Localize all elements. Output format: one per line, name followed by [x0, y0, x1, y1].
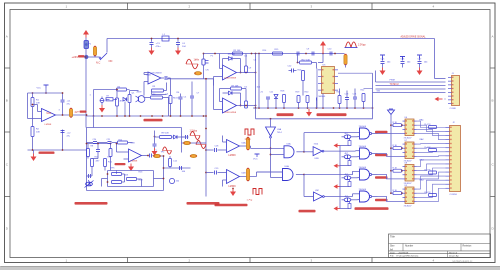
svg-text:10K: 10K: [257, 87, 261, 89]
svg-text:74LS247: 74LS247: [404, 206, 413, 208]
svg-text:74LS00: 74LS00: [359, 126, 367, 128]
svg-text:1N4148: 1N4148: [228, 54, 236, 56]
svg-text:2.5Vpp: 2.5Vpp: [358, 44, 366, 47]
svg-text:LM393: LM393: [229, 155, 237, 157]
svg-text:TO MCU: TO MCU: [390, 84, 399, 86]
svg-text:1.7Vp: 1.7Vp: [247, 200, 253, 202]
svg-text:74LS00: 74LS00: [359, 189, 367, 191]
svg-text:N.C: N.C: [96, 62, 101, 65]
svg-text:470u: 470u: [156, 46, 162, 48]
svg-text:NE555: NE555: [319, 96, 326, 98]
svg-text:tek.flash-design.cc: tek.flash-design.cc: [453, 260, 474, 263]
svg-text:VCC: VCC: [253, 159, 258, 161]
svg-text:U5A: U5A: [287, 143, 292, 146]
svg-text:10K: 10K: [125, 175, 129, 177]
svg-text:U4A: U4A: [242, 142, 247, 145]
svg-text:R7 10K: R7 10K: [232, 86, 240, 88]
svg-text:R 1K: R 1K: [393, 122, 398, 124]
svg-text:Revision: Revision: [463, 246, 473, 248]
svg-text:U3A: U3A: [277, 128, 282, 131]
svg-text:Date:: Date:: [390, 251, 396, 254]
svg-text:LM358: LM358: [45, 124, 52, 126]
svg-text:LM393: LM393: [229, 186, 237, 188]
svg-text:R 4.7K: R 4.7K: [425, 124, 432, 126]
svg-text:U2B LM358: U2B LM358: [225, 112, 237, 114]
svg-text:Size: Size: [390, 246, 395, 248]
svg-text:A: A: [492, 35, 494, 39]
svg-text:CON8: CON8: [450, 108, 457, 110]
svg-text:R 1K: R 1K: [393, 190, 398, 192]
svg-text:CON16: CON16: [450, 194, 458, 196]
svg-text:B: B: [492, 99, 494, 103]
svg-text:4V7: 4V7: [75, 111, 80, 114]
svg-text:74LS00: 74LS00: [359, 167, 367, 169]
svg-text:1.5Vpp: 1.5Vpp: [190, 130, 198, 133]
svg-text:Number: Number: [405, 245, 413, 248]
svg-text:+24V: +24V: [72, 55, 79, 59]
svg-text:R 1K: R 1K: [393, 168, 398, 170]
svg-text:U1B LM358: U1B LM358: [151, 73, 163, 75]
svg-text:VCC: VCC: [37, 88, 42, 90]
svg-text:U3B: U3B: [315, 158, 320, 160]
svg-text:LM358: LM358: [131, 161, 138, 163]
svg-text:U1A: U1A: [47, 112, 52, 115]
svg-text:74LS00: 74LS00: [359, 146, 367, 148]
svg-text:CN: CN: [206, 70, 210, 72]
svg-text:2019/5/28: 2019/5/28: [399, 252, 410, 254]
svg-text:R9 10K: R9 10K: [162, 133, 170, 135]
svg-text:10K: 10K: [36, 132, 40, 134]
svg-text:R6 1K: R6 1K: [173, 98, 179, 100]
svg-text:R5 10K: R5 10K: [234, 50, 242, 52]
svg-text:R 4.7K: R 4.7K: [425, 192, 432, 194]
svg-text:SIG: SIG: [377, 91, 381, 93]
svg-text:R 4.7K: R 4.7K: [425, 147, 432, 149]
svg-text:PWM: PWM: [390, 80, 395, 82]
svg-text:R 1K: R 1K: [393, 145, 398, 147]
svg-text:R 4.7K: R 4.7K: [425, 170, 432, 172]
svg-text:U1B: U1B: [147, 75, 152, 77]
svg-text:R17 10K: R17 10K: [302, 60, 311, 62]
svg-text:1.7Vp: 1.7Vp: [245, 139, 252, 141]
svg-text:Sheet of: Sheet of: [449, 251, 458, 254]
svg-text:A: A: [6, 35, 8, 39]
svg-text:ON: ON: [109, 60, 113, 63]
svg-text:U4B: U4B: [242, 173, 247, 175]
svg-text:U3C: U3C: [315, 190, 320, 192]
svg-text:1kHz: 1kHz: [194, 59, 200, 62]
svg-text:U4A: U4A: [285, 165, 290, 168]
svg-text:Title: Title: [390, 235, 395, 239]
svg-text:AD/LED DRIVE SIGNAL: AD/LED DRIVE SIGNAL: [401, 36, 427, 39]
svg-text:B: B: [6, 99, 8, 103]
svg-text:2N39: 2N39: [137, 92, 143, 94]
svg-text:U2A LM358: U2A LM358: [225, 77, 237, 80]
